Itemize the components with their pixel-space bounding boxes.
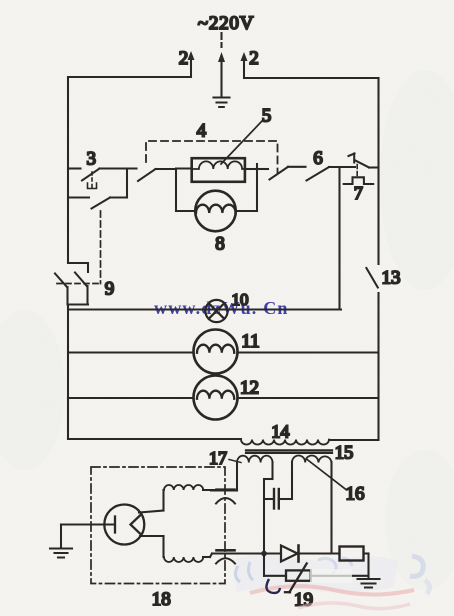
wire diode to resistor [299, 552, 340, 554]
door switch 9 bottom bracket [68, 303, 88, 305]
wire motor 11 rail [68, 351, 379, 353]
magnetron tube [104, 505, 144, 545]
ground (mains earth) [214, 98, 230, 108]
motor 11 [194, 330, 238, 374]
label 2 right [249, 48, 259, 69]
leader 17 [229, 460, 241, 463]
dashed stub below 220V [220, 33, 222, 47]
HV winding 15 [292, 456, 332, 463]
watermark bottom debris (under) [234, 554, 430, 594]
wire 17 left end down [211, 462, 237, 491]
label 16 [346, 484, 365, 505]
watermark middle [154, 298, 289, 318]
wire 15 left end down [291, 462, 293, 499]
ground magnetron [50, 525, 72, 558]
wire lamp rail [68, 308, 341, 310]
door switch 9 top bracket [68, 263, 88, 272]
filament winding 17 [237, 456, 273, 463]
heater coil [192, 161, 245, 169]
wire top rail right [244, 77, 379, 79]
wire varistor right [311, 575, 369, 577]
heater element 5 box [192, 158, 245, 182]
label 8 [215, 234, 225, 255]
choke top [164, 485, 203, 490]
earth arrow center [218, 52, 225, 96]
transformer primary 14 [241, 440, 329, 445]
door switch 9 blade B [75, 273, 88, 305]
phase arrow R (node 2) [241, 52, 248, 78]
switch 9 dashed link [57, 283, 101, 285]
watermark bottom debris (over) [266, 569, 410, 609]
label 9 [105, 279, 115, 300]
resistor [340, 547, 364, 561]
switch 3 link mark [88, 172, 97, 189]
door switch 9 blade A [55, 274, 68, 305]
choke bottom [164, 557, 203, 562]
wire node to diode [264, 552, 281, 554]
label 11 [241, 331, 259, 352]
label 17 [209, 448, 227, 468]
pushbutton 7 dashed actuator link [356, 165, 358, 177]
label 18 [152, 589, 171, 610]
wire node down to varistor [264, 554, 286, 576]
wire choke bottom to node [203, 554, 264, 558]
wire magnetron anode lead [61, 523, 115, 525]
HV capacitor [264, 489, 292, 509]
wire bottom rail right [329, 439, 379, 441]
ground right [358, 579, 380, 588]
node junction dot [261, 551, 267, 557]
switch 13 blade [366, 268, 377, 288]
leader line 5 [221, 121, 262, 164]
label 15 [335, 444, 354, 464]
transformer core [246, 450, 332, 453]
motor 12 [194, 376, 238, 420]
motor 8 [195, 191, 236, 232]
wire motor 12 rail [68, 397, 379, 399]
label 3 [87, 149, 97, 170]
wire 17 right end down to node [264, 462, 273, 554]
label 2 left [179, 48, 189, 69]
label 13 [382, 268, 401, 289]
leader 16 [307, 459, 347, 490]
wire 15 right end down [330, 462, 332, 554]
label 6 [313, 148, 323, 169]
lamp 10 [205, 300, 227, 322]
wire left edge bottom corner [67, 398, 69, 439]
wire right edge lower [377, 293, 379, 440]
varistor 19 [285, 564, 311, 593]
wire rail through heater row [176, 167, 268, 170]
wire choke top to cap [203, 489, 217, 491]
label 14 [271, 421, 289, 441]
interlock dashed link down to switch 9 [100, 211, 102, 284]
node T junction x339.5 [338, 167, 340, 310]
wire left edge lower [67, 305, 69, 440]
diode [281, 546, 299, 562]
label 4 [197, 121, 207, 142]
magnetron box 18 dash-dot [91, 467, 225, 584]
switch 6 blade b [307, 167, 356, 181]
label 7 [354, 183, 363, 203]
wire resistor to ground [364, 554, 369, 579]
switch 6 blade a [270, 167, 306, 180]
wire bottom rail left [68, 438, 241, 440]
motor 8 branch left [176, 169, 196, 212]
wire heater top lead [139, 490, 164, 513]
thermostat dashed box 4 [146, 141, 278, 174]
switch blade under box 4 left [138, 169, 176, 181]
wire heater bottom lead [140, 536, 164, 557]
feedthrough cap top [216, 490, 235, 504]
label ~220V [198, 13, 255, 34]
label 10 [232, 290, 249, 309]
motor 8 branch right [236, 164, 258, 211]
wire left edge upper [67, 77, 69, 263]
pushbutton 7 button [344, 177, 374, 184]
switch 3 lower pole [68, 169, 127, 209]
label 19 [294, 590, 313, 611]
phase arrow L (node 2) [188, 51, 195, 76]
pushbutton 7 contact [349, 154, 379, 168]
switch 3 upper pole [68, 169, 137, 181]
label 5 [262, 106, 272, 127]
feedthrough cap bottom [216, 550, 235, 563]
wire right edge upper [377, 78, 379, 264]
wire top rail left [68, 76, 191, 78]
label 12 [240, 378, 259, 399]
